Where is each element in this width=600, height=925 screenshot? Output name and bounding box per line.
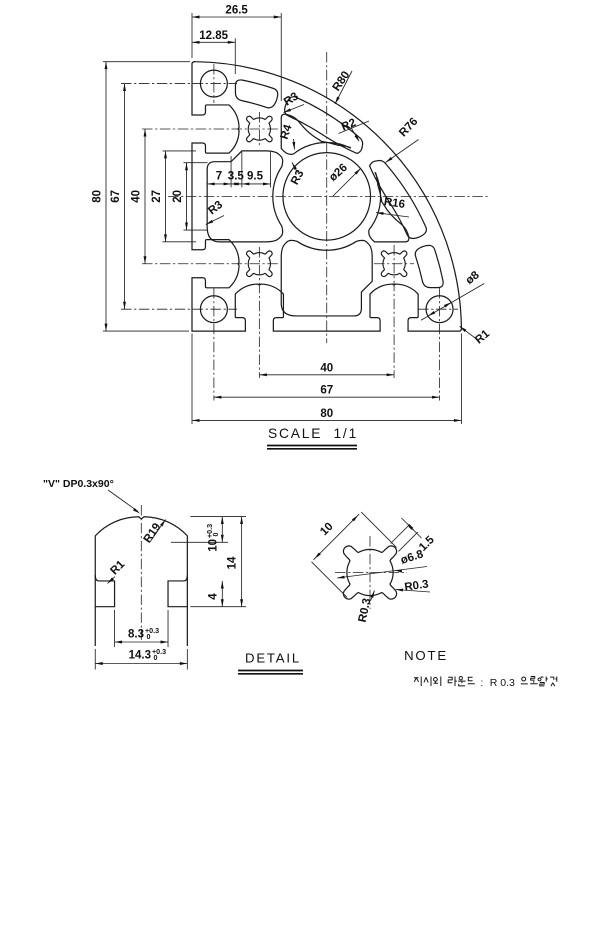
svg-text:9.5: 9.5 (247, 171, 264, 183)
dimension 27 left (165, 151, 167, 242)
centerline left slot y=60 through rosette (142, 128, 278, 130)
detail dim 14.3 (94, 649, 96, 670)
hole dia 8 top-left (200, 70, 227, 97)
dimension 40 left (144, 129, 146, 264)
cavity C2 (lower-right of center boss) (369, 173, 409, 242)
cavity C1 (upper-left of center boss) (281, 114, 350, 154)
svg-text:40: 40 (320, 362, 333, 374)
rosette detail dim 10 across horns (314, 514, 360, 560)
svg-text:14.3: 14.3 (129, 650, 151, 662)
svg-text:R 0.3: R 0.3 (490, 677, 515, 689)
dimension 40 bottom (259, 374, 394, 376)
svg-text:80: 80 (92, 190, 104, 203)
detail centerline (140, 505, 142, 640)
hole bottom-right centerlines (418, 308, 458, 310)
label R16 (376, 213, 409, 217)
svg-text:67: 67 (320, 385, 333, 397)
rosette upper vertical centerline (258, 112, 260, 146)
rosette detail label dia6.8 (337, 567, 427, 579)
arc cavity slot D2 lower-right (band end, wall at y=13.7) (415, 245, 443, 287)
svg-text:0: 0 (212, 533, 220, 537)
detail T-slot outline (95, 517, 187, 646)
svg-text:40: 40 (131, 190, 143, 203)
detail label R1 (108, 577, 116, 584)
rosette screw-boss hole at (20,60) (247, 116, 273, 142)
hole bottom-left centerlines (121, 308, 237, 310)
centerline left slot y=20 through rosette (142, 263, 278, 265)
detail dim 10 (190, 516, 246, 518)
dimension 67 left (124, 84, 126, 310)
label R3 upper rib (284, 105, 305, 113)
label R3 rib near boss (292, 163, 298, 173)
note korean text line (414, 677, 421, 687)
rosette screw-boss hole at (20,20) (247, 251, 273, 277)
cavity E-bottom (between bottom slots and boss) (281, 240, 372, 316)
arc cavity slot D1 upper-left (band end, wall at x=13.7) (235, 80, 277, 108)
horizontal centerline y=40 (168, 195, 488, 197)
svg-text:67: 67 (110, 190, 122, 203)
svg-text:8.3: 8.3 (128, 629, 144, 641)
cavity E-left (between left slots and boss) (207, 151, 283, 242)
svg-text:3.5: 3.5 (228, 171, 245, 183)
vertical centerline x=40 (326, 52, 328, 343)
arc cavity slot A2 (R76/R70 band, lower) (370, 160, 427, 238)
svg-text:7: 7 (216, 171, 222, 183)
svg-text::: : (480, 677, 483, 689)
svg-text:4: 4 (208, 593, 220, 600)
label dia8 (421, 284, 484, 321)
svg-text:27: 27 (151, 190, 163, 203)
rosette detail dim 1.5 horn width (391, 524, 410, 543)
svg-text:26.5: 26.5 (225, 5, 248, 17)
svg-text:SCALE 1/1: SCALE 1/1 (268, 426, 358, 441)
svg-text:80: 80 (320, 408, 333, 420)
dimension 26.5 top (192, 16, 281, 18)
svg-text:12.85: 12.85 (199, 30, 228, 42)
rosette detail outline (343, 546, 396, 599)
dimension 12.85 top (192, 41, 235, 43)
label R1 corner (460, 326, 477, 339)
dimension 67 bottom (214, 396, 440, 398)
label dia26 (333, 168, 361, 196)
detail dim 4 (190, 606, 246, 608)
svg-text:0: 0 (154, 654, 158, 662)
detail dim 14 (241, 517, 243, 607)
dimension 20 left (186, 163, 188, 230)
arc cavity slot A1 (R76/R70 band, upper) (285, 97, 363, 154)
svg-text:0: 0 (147, 633, 151, 641)
rosette detail label R0.3 bottom (371, 591, 375, 602)
label R3 left cavity fillet (206, 216, 224, 225)
dimension 80 left (105, 62, 107, 331)
svg-text:NOTE: NOTE (404, 648, 448, 663)
detail dim 8.3 (114, 610, 116, 647)
dimensions 7 / 3.5 / 9.5 (206, 168, 208, 187)
rosette detail label R0.3 right (396, 590, 431, 593)
center bore circle dia 26 (283, 153, 371, 241)
svg-text:14: 14 (227, 556, 239, 569)
svg-text:DETAIL: DETAIL (245, 651, 301, 666)
rosette lower-right horizontal centerline (374, 263, 414, 265)
dimension 80 bottom (192, 419, 461, 421)
hole top-left centerlines (213, 64, 215, 103)
label R4 (294, 139, 295, 150)
centerline bottom slot x=60 (393, 245, 395, 378)
rosette screw-boss hole at (60,20) (381, 251, 407, 277)
label R2 (339, 121, 370, 134)
hole dia 8 bottom-right (426, 296, 453, 323)
label R80 (335, 71, 352, 104)
hole dia 8 bottom-left (200, 296, 227, 323)
centerline bottom slot x=20 (258, 247, 260, 378)
detail label R19 (150, 520, 166, 543)
label R76 (386, 140, 419, 163)
svg-text:"V" DP0.3x90°: "V" DP0.3x90° (43, 478, 114, 490)
svg-text:10: 10 (208, 539, 220, 552)
rosette detail centerlines (335, 572, 407, 574)
svg-text:20: 20 (172, 190, 184, 203)
profile outer boundary with four T-slots (left y=20,60; bottom x=20,60), R80 outer arc (192, 62, 461, 331)
